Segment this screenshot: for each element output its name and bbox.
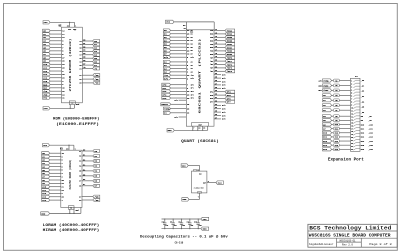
svg-text:R11: R11 [335, 128, 338, 130]
svg-text:13: 13 [351, 116, 353, 118]
QUART left address select flags with wires [163, 60, 194, 80]
title block frame [308, 224, 397, 247]
svg-text:6: 6 [351, 96, 352, 98]
QUART left input port flags IP0-IP3 [162, 83, 194, 100]
svg-text:38: 38 [203, 128, 205, 130]
svg-text:D6: D6 [83, 60, 85, 62]
RAM U3 address input flags A0-A14 with wires [42, 152, 65, 202]
svg-text:Expansion Port: Expansion Port [328, 158, 364, 163]
svg-text:/RES: /RES [323, 89, 329, 92]
svg-text:GND: GND [41, 212, 46, 215]
svg-text:A14: A14 [42, 199, 47, 202]
svg-text:1: 1 [351, 81, 352, 83]
svg-text:D0: D0 [83, 149, 85, 151]
svg-text:W65C816S SINGLE BOARD COMPUTER: W65C816S SINGLE BOARD COMPUTER [309, 235, 391, 239]
svg-text:25: 25 [187, 108, 189, 110]
svg-text:D7: D7 [83, 184, 85, 186]
svg-text:VCC: VCC [203, 218, 208, 221]
ROM address range caption [53, 116, 99, 126]
svg-text:D3: D3 [83, 50, 85, 52]
svg-text:C7: C7 [170, 221, 172, 223]
svg-text:A3: A3 [191, 67, 193, 70]
svg-text:R/W: R/W [164, 56, 169, 59]
svg-text:IP1: IP1 [191, 88, 194, 90]
svg-text:BCS Technology Limited: BCS Technology Limited [309, 225, 391, 231]
svg-text:/CE: /CE [95, 82, 100, 85]
svg-text:R3: R3 [335, 90, 337, 92]
svg-text:R15: R15 [335, 145, 338, 147]
RAM U3 bottom ground pins and GND flag with wire [41, 206, 81, 216]
RAM U3 lower right select flags [79, 195, 100, 202]
svg-text:Vcc: Vcc [68, 29, 71, 31]
expansion left signal flags upper group with series boxes and wires [318, 79, 350, 112]
svg-text:35: 35 [187, 104, 189, 106]
connector J4 pin numbers and pin ticks [351, 80, 360, 151]
connector J4 right net names [361, 79, 374, 151]
svg-text:IP2: IP2 [191, 91, 194, 93]
svg-text:IP4: IP4 [191, 97, 194, 100]
svg-text:14: 14 [197, 169, 199, 172]
svg-text:D6: D6 [191, 50, 193, 52]
svg-text:D7: D7 [83, 63, 85, 65]
svg-text:Rev 2.0: Rev 2.0 [342, 243, 354, 246]
svg-text:27C256 EPROM (32Kx8): 27C256 EPROM (32Kx8) [68, 38, 72, 92]
svg-text:Gnd: Gnd [76, 104, 79, 106]
power flag VCC (oscillator) [181, 164, 188, 168]
svg-text:D3: D3 [83, 164, 85, 166]
svg-text:D5: D5 [191, 47, 193, 49]
svg-text:R16: R16 [335, 149, 338, 151]
svg-text:OP7: OP7 [227, 101, 232, 104]
svg-text:D12: D12 [323, 140, 328, 143]
decoupling capacitor rail GND [162, 227, 209, 231]
svg-text:IP0: IP0 [191, 84, 194, 86]
svg-text:W65C816S-01: W65C816S-01 [340, 240, 356, 243]
RAM address range caption [43, 223, 100, 233]
svg-text:C6: C6 [162, 221, 164, 223]
svg-text:D5: D5 [83, 57, 85, 59]
svg-text:R7: R7 [335, 110, 337, 112]
svg-text:D1: D1 [83, 154, 85, 156]
svg-text:/OP: /OP [210, 64, 213, 66]
svg-text:VCC: VCC [166, 21, 171, 24]
svg-text:Gnd: Gnd [198, 124, 201, 126]
svg-text:D10: D10 [323, 132, 328, 135]
svg-text:D1: D1 [191, 33, 193, 35]
connector J4 expansion header body [351, 75, 361, 151]
svg-text:/IRQ: /IRQ [323, 79, 329, 82]
svg-text:/CS: /CS [191, 75, 194, 77]
svg-text:C8: C8 [178, 221, 180, 223]
oscillator X2 body 3.6864 MHz [192, 170, 207, 194]
svg-text:D5: D5 [83, 174, 85, 176]
svg-text:bigdumbdinosaur: bigdumbdinosaur [309, 242, 334, 246]
svg-text:/OP: /OP [210, 71, 213, 73]
wire VCC to ROM top pins [50, 22, 76, 31]
svg-text:A4: A4 [191, 71, 193, 74]
svg-text:A2: A2 [191, 64, 193, 67]
svg-text:VPB: VPB [44, 107, 49, 110]
svg-text:OP5: OP5 [210, 95, 213, 97]
svg-text:32: 32 [67, 26, 69, 28]
decoupling capacitor rail VCC [162, 217, 209, 221]
svg-text:A1: A1 [191, 61, 193, 64]
svg-text:17: 17 [351, 128, 353, 130]
svg-text:20: 20 [351, 137, 353, 139]
svg-text:R1: R1 [335, 80, 337, 82]
svg-text:R13: R13 [335, 137, 338, 139]
svg-text:RESET: RESET [161, 103, 168, 106]
title document number cell [340, 240, 356, 247]
svg-text:GND: GND [203, 228, 208, 231]
svg-text:/IRQ: /IRQ [164, 107, 170, 110]
svg-text:D13: D13 [323, 144, 328, 147]
svg-text:R2: R2 [335, 85, 337, 87]
svg-text:VCC: VCC [182, 164, 187, 167]
svg-text:/OP: /OP [210, 61, 213, 63]
svg-text:R/W: R/W [164, 77, 169, 80]
svg-text:R5: R5 [335, 100, 337, 102]
wire VCC to RAM top pins [50, 145, 76, 151]
svg-text:20: 20 [79, 83, 81, 85]
svg-text:D6: D6 [83, 179, 85, 181]
svg-text:R9: R9 [335, 120, 337, 122]
svg-text:1: 1 [75, 26, 76, 28]
svg-text:GND: GND [182, 198, 187, 201]
svg-text:C6-C10: C6-C10 [175, 241, 184, 244]
svg-text:8: 8 [351, 102, 352, 104]
svg-text:Gnd: Gnd [76, 210, 79, 212]
svg-text:68C681 QUART (PLCC52): 68C681 QUART (PLCC52) [198, 38, 202, 113]
svg-text:LORAM (40C000-40CFFF): LORAM (40C000-40CFFF) [43, 223, 100, 228]
svg-text:8: 8 [208, 181, 209, 183]
svg-text:16: 16 [351, 125, 353, 127]
svg-text:C10: C10 [194, 221, 197, 223]
svg-text:D7: D7 [191, 54, 193, 56]
svg-text:23: 23 [351, 146, 353, 148]
wire VCC to QUART Vcc pin [174, 22, 214, 34]
svg-text:9: 9 [351, 104, 352, 106]
svg-text:ROM (E08000-E0BFFF): ROM (E08000-E0BFFF) [53, 116, 99, 121]
svg-text:22: 22 [79, 200, 81, 202]
svg-text:R10: R10 [335, 124, 338, 126]
svg-text:Page 8 of 8: Page 8 of 8 [369, 242, 392, 246]
svg-text:12: 12 [351, 113, 353, 115]
svg-text:CLK: CLK [218, 181, 223, 184]
svg-text:VCC: VCC [43, 144, 48, 147]
svg-text:D3: D3 [191, 40, 193, 42]
svg-text:D14: D14 [323, 148, 328, 151]
svg-text:OP7: OP7 [210, 102, 213, 104]
expansion left signal flags lower group with series boxes and wires [323, 115, 351, 152]
QUART bottom ground sub-box, stubs and GND flag [167, 123, 209, 133]
RAM U3 data pins D0-D7 with net boxes [79, 149, 99, 187]
power flag VCC (RAM top) [43, 144, 50, 148]
svg-text:21: 21 [351, 140, 353, 142]
svg-text:R6: R6 [335, 105, 337, 107]
svg-text:36: 36 [187, 113, 189, 115]
svg-text:10: 10 [351, 107, 353, 109]
QUART left data bus flags D0-D7 with wires [163, 29, 194, 59]
svg-text:5: 5 [351, 93, 352, 95]
svg-text:Decoupling Capacitors -- 0.1 u: Decoupling Capacitors -- 0.1 uF @ 50v [140, 235, 229, 240]
ROM U2 data output pins D0-D7 with net boxes [79, 39, 99, 70]
svg-text:/OE: /OE [95, 199, 100, 202]
svg-text:VCC: VCC [44, 21, 49, 24]
svg-text:C9: C9 [187, 221, 189, 223]
svg-text:QUART (68C681): QUART (68C681) [181, 139, 219, 144]
QUART right serial port flags and NC pins [210, 28, 235, 121]
svg-text:27: 27 [79, 196, 81, 198]
svg-text:11: 11 [351, 110, 353, 112]
svg-text:22: 22 [79, 79, 81, 81]
svg-text:OUT: OUT [203, 182, 206, 184]
IC U3 RAM 62C256 body [61, 150, 82, 207]
svg-text:GND: GND [168, 129, 173, 132]
svg-text:18: 18 [351, 131, 353, 133]
ROM U2 address input flags A0-A14 and control pins with wires [43, 29, 66, 100]
QUART left misc pins: NC, reset, interrupt, clock [161, 99, 189, 119]
svg-text:/OE: /OE [95, 78, 100, 81]
svg-text:7: 7 [193, 128, 194, 130]
svg-text:HIRAM (40E000-40FFFF): HIRAM (40E000-40FFFF) [43, 228, 100, 233]
svg-text:/OP: /OP [210, 57, 213, 59]
svg-text:2: 2 [351, 84, 352, 86]
svg-text:7: 7 [351, 99, 352, 101]
svg-text:15: 15 [351, 122, 353, 124]
svg-text:D2: D2 [191, 37, 193, 39]
svg-text:/OP: /OP [210, 68, 213, 70]
svg-text:3: 3 [351, 87, 352, 89]
ROM U2 lower right control flags [79, 74, 99, 85]
IC U5 QUART 68C681 body [186, 30, 214, 126]
svg-text:1: 1 [75, 149, 76, 151]
power flag VCC (ROM top) [43, 21, 50, 25]
IC U2 ROM 27C256 body [62, 27, 83, 103]
svg-text:/NMI: /NMI [323, 84, 329, 87]
oscillator ground wire and GND flag [182, 193, 200, 201]
capacitor C10 [194, 218, 202, 229]
svg-text:(E1C000-E1FFFF): (E1C000-E1FFFF) [56, 122, 99, 127]
capacitor C9 [187, 218, 194, 229]
svg-text:IP4: IP4 [162, 97, 167, 100]
svg-text:27: 27 [79, 75, 81, 77]
svg-text:OP6: OP6 [210, 98, 213, 100]
svg-text:IP3: IP3 [191, 94, 194, 96]
svg-text:3.6864 MHz: 3.6864 MHz [194, 186, 205, 189]
power flag VCC (QUART top) [166, 20, 175, 24]
oscillator output wire and CLK flag [203, 181, 223, 185]
capacitor C7 [170, 218, 177, 229]
svg-text:D2: D2 [83, 159, 85, 161]
wire VCC to oscillator [188, 166, 199, 172]
capacitor C8 [178, 218, 185, 229]
svg-text:PH2: PH2 [43, 97, 48, 100]
svg-text:28: 28 [66, 149, 68, 151]
svg-text:D0: D0 [191, 30, 193, 32]
svg-text:14: 14 [70, 207, 72, 210]
svg-text:D2: D2 [83, 46, 85, 48]
svg-text:/OP4: /OP4 [227, 70, 233, 73]
capacitor C6 [162, 218, 169, 229]
svg-text:Vpp: Vpp [73, 29, 76, 31]
decoupling caption [140, 235, 229, 245]
svg-text:D1: D1 [83, 43, 85, 45]
svg-text:7: 7 [198, 196, 199, 198]
svg-text:R8: R8 [335, 116, 337, 118]
svg-text:D11: D11 [323, 136, 328, 139]
svg-text:R12: R12 [335, 133, 338, 135]
svg-text:22: 22 [351, 143, 353, 145]
ROM U2 bottom ground pins and VPB flag with wire [43, 101, 79, 110]
svg-text:D4: D4 [191, 43, 193, 46]
svg-text:D0: D0 [83, 39, 85, 41]
svg-text:/WE: /WE [95, 74, 100, 77]
svg-text:62C256 SRAM (32Kx8): 62C256 SRAM (32Kx8) [68, 159, 72, 189]
svg-text:19: 19 [351, 134, 353, 136]
svg-text:16: 16 [71, 103, 73, 105]
